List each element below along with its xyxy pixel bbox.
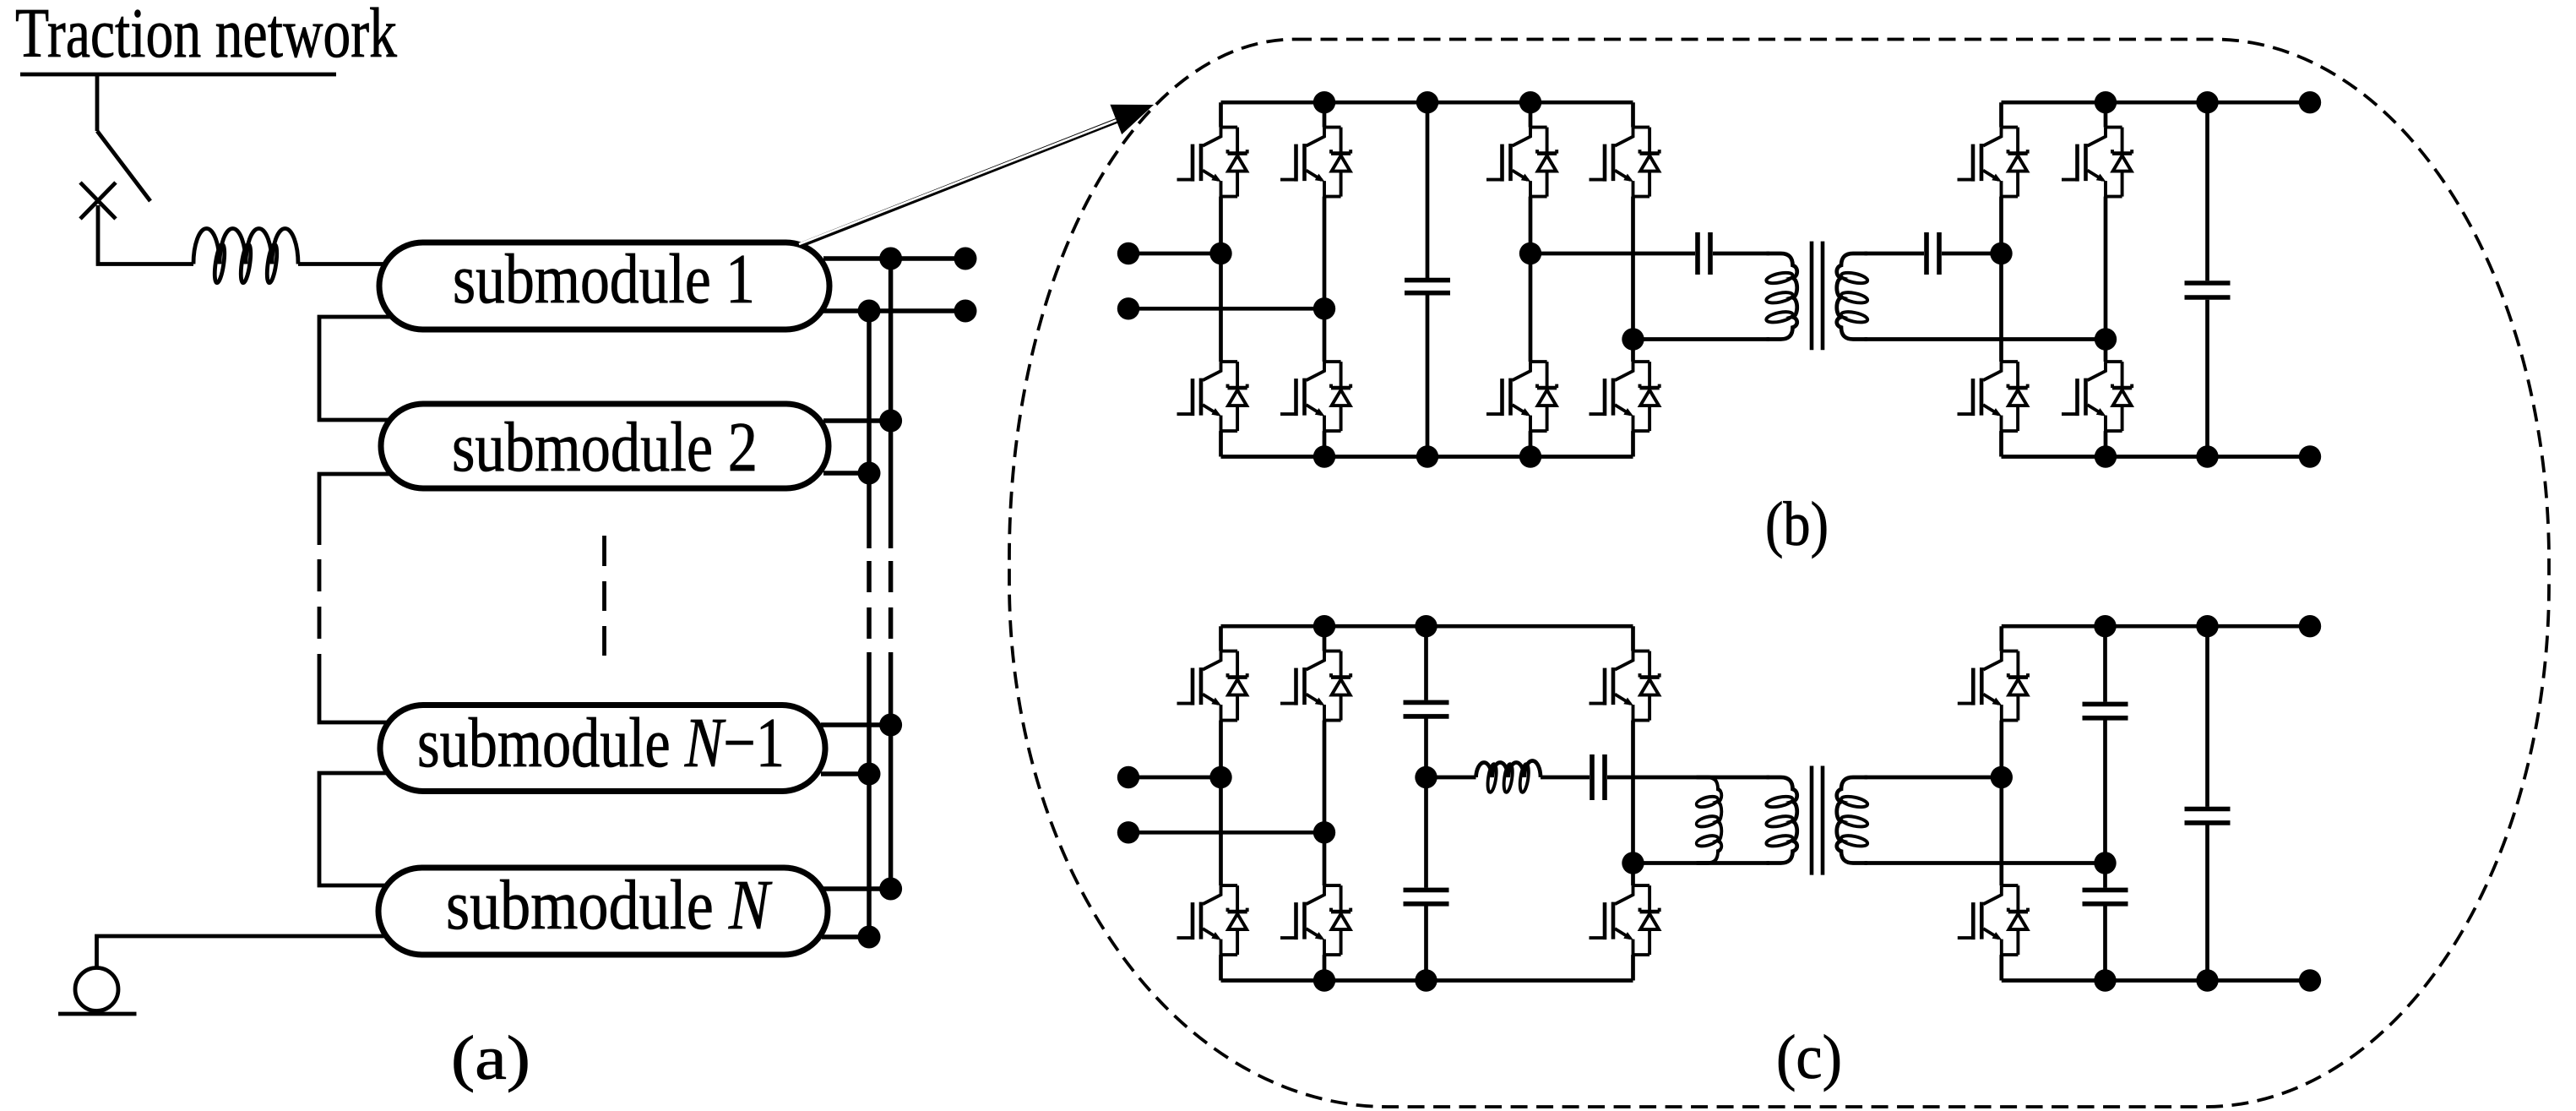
transistor Q4 [1280,362,1350,431]
(c) wire split mid to inductor [1427,776,1476,780]
(b) wire secondary bottom to output bridge [1865,337,2106,341]
transistor Q11 [1958,362,2028,431]
(c) bridge1 leg2 [1323,626,1327,980]
(c) wire secondary top to half-bridge [1865,776,2002,780]
node (b) bottom rail leg2 [1313,445,1335,467]
rail wheel ground circle [75,968,118,1011]
wire submodule N to rail ground [97,936,389,967]
capacitor Cdc (b) [1426,102,1430,456]
svg-text:submodule 2: submodule 2 [452,408,758,487]
wire trunk to submodule N-1 [319,654,389,722]
inductor L input smoothing coil [193,229,298,264]
node (c) top rail leg2 [1313,615,1335,637]
submodule 2 output wires [823,421,891,473]
submodule 1 box [379,242,829,329]
junction dot v1 submodule 1 [858,300,881,323]
transistor Q1 [1177,128,1247,197]
bus line v2 dashed part [889,561,894,639]
terminal dot (c) output - [2299,969,2321,991]
bus line v1 lower part [867,652,872,937]
(c) half-bridge mid dot [1622,852,1644,874]
wire split mid [1424,719,1428,888]
node (b) bottom rail Cdc [1416,445,1438,467]
(b) bridge1 leg2 [1323,102,1327,456]
node (b) bridge1 leg2 midpoint [1313,297,1335,319]
transistor Q5 [1486,128,1557,197]
submodule N-1 output wires [821,725,891,774]
svg-text:Traction network: Traction network [15,0,397,73]
(b) bottom rail left [1221,455,1633,459]
svg-text:submodule 1: submodule 1 [453,240,755,319]
node (c) top rail split-cap [1415,615,1437,637]
node (c) bottom rail split-cap [1415,969,1437,991]
(b) output top rail [2002,101,2311,105]
bus line v1 [867,311,872,548]
junction dot v2 submodule 1 [879,248,902,270]
terminal dot (b) input + [1117,242,1139,264]
wire submodule 2 to trunk (solid top part) [319,474,393,545]
rail ground bar [58,1012,137,1016]
node (b) top rail bridge2 [1519,91,1541,113]
terminal dot (c) input + [1117,766,1139,788]
(c) input stub top [1128,776,1221,780]
junction dot v1 submodule N-1 [858,763,881,786]
(b) bridge3 leg1 [1999,102,2003,456]
capacitor Cd2 (c) split bottom [1404,890,1449,903]
(b) input stub top [1128,252,1221,256]
transformer T1 secondary [1837,253,1869,340]
arrow submodule 1 to detail view (double shaft) [801,110,1144,245]
submodule N-1 box [380,705,825,792]
junction dot v2 submodule N [879,878,902,901]
transistor Q10 [2062,128,2132,197]
transistor Q2 [1280,128,1350,197]
svg-text:(c): (c) [1776,1023,1842,1092]
node (b) bottom rail bridge2 [1519,445,1541,467]
traction bus bar [20,73,336,77]
node (b) top rail leg2 [1313,91,1335,113]
wire cap to transformer crossing leg [1607,776,1769,780]
(c) wire half-bridge to transformer bottom [1633,861,1770,865]
svg-text:(a): (a) [451,1024,530,1093]
transistor Q9 [1958,128,2028,197]
(b) wire bridge2 to series cap [1530,252,1695,256]
node (c) bridge1 leg2 midpoint [1313,821,1335,843]
capacitor Cd1 (c) split top [1424,626,1428,700]
wire submodule 1 to submodule 2 [319,317,393,420]
transistor Q12 [2062,362,2132,431]
inductor Lr (c) [1476,761,1541,777]
dashed enclosure border [1009,40,2549,1108]
transistor Q14 [1280,651,1350,721]
(c) bottom rail left [1221,978,1633,983]
transformer T1 primary [1765,253,1797,340]
transistor Q15 [1177,885,1247,955]
(b) wire cap to transformer [1713,252,1769,256]
terminal dot submodule 1 bottom [954,300,977,323]
node (b) top rail Cdc [1416,91,1438,113]
submodule N output wires [822,889,891,937]
(c) output top rail [2002,624,2310,629]
junction dot v1 submodule N [858,926,881,949]
(c) output bottom rail [2002,978,2310,983]
(c) split mid dot right [2094,852,2116,874]
(c) bridge1 leg1 [1219,626,1223,980]
(c) split mid dot [1415,766,1437,788]
terminal dot (c) output + [2299,615,2321,637]
terminal dot (b) output + [2299,91,2321,113]
svg-text:submodule N: submodule N [446,866,772,945]
node (c) bridge1 leg1 midpoint [1209,766,1231,788]
(c) output half-bridge leg [1999,626,2003,980]
node (c) output top rail Co [2196,615,2218,637]
terminal dot (b) output - [2299,445,2321,467]
capacitor Cd4 (c) split bottom right [2083,890,2128,903]
bus line v2 [889,259,894,548]
wire from bus down [95,76,100,131]
transistor Q18 [1590,885,1660,955]
node (b) output bottom rail Co [2196,445,2218,467]
transistor Q13 [1177,651,1247,721]
transistor Q3 [1177,362,1247,431]
node (b) output bottom rail leg2 [2095,445,2117,467]
terminal dot (b) input - [1117,297,1139,319]
(b) input stub bottom [1128,307,1324,311]
(c) wire secondary bottom to split mid [1865,861,2106,865]
wire inductor to submodule 1 [298,262,389,266]
transistor Q6 [1590,128,1660,197]
capacitor Cr (c) [1592,754,1605,800]
capacitor Cd3 (c) split top right [2103,626,2107,702]
transistor Q20 [1958,885,2028,955]
transistor Q7 [1486,362,1557,431]
transistor Q19 [1958,651,2028,721]
(b) wire secondary to cap [1865,252,1925,256]
node (c) output bottom rail split-cap [2094,969,2116,991]
switch blade (open disconnector) [97,131,150,201]
transformer T1 core [1812,242,1823,351]
(b) bridge2 leg2 [1631,102,1635,456]
svg-text:submodule N−1: submodule N−1 [417,704,785,782]
switch X contact mark [80,182,116,219]
capacitor Cs2 (b) [1927,232,1939,275]
(b) wire bridge2 to transformer bottom [1633,337,1770,341]
transformer T2 core [1812,766,1823,875]
submodule 1 output wires [823,259,965,311]
node (b) bridge3 leg1 midpoint [1990,242,2012,264]
terminal dot (c) input - [1117,821,1139,843]
svg-text:(b): (b) [1765,490,1829,559]
bus line v1 dashed part [867,561,872,639]
junction dot v2 submodule N-1 [879,714,902,737]
transformer T2 primary [1765,777,1797,863]
wire inductor to cap [1541,776,1590,780]
transistor Q16 [1280,885,1350,955]
submodule 2 box [381,404,829,488]
node (c) output bottom rail Co [2196,969,2218,991]
(b) bridge1 leg1 [1219,102,1223,456]
junction dot v1 submodule 2 [858,462,881,485]
terminal dot submodule 1 top [954,248,977,270]
submodule N box [378,868,828,955]
(b) bridge3 leg2 [2104,102,2108,456]
node (b) bridge3 leg2 midpoint [2095,328,2117,350]
transistor Q8 [1590,362,1660,431]
(b) wire cap to output bridge [1942,252,2002,256]
(b) bridge2 leg1 [1529,102,1533,456]
node (c) output top rail split-cap [2094,615,2116,637]
middle ellipsis dashed line [602,536,606,656]
bus line v2 lower part [889,652,894,889]
arrow head [1110,105,1154,134]
(c) output half-bridge mid dot [1991,766,2013,788]
node (b) output top rail Co [2196,91,2218,113]
capacitor Co (c) [2205,626,2209,980]
node (b) output top rail leg2 [2095,91,2117,113]
(c) top rail left [1221,624,1633,629]
wire split mid right [2103,720,2107,887]
transistor Q17 [1590,651,1660,721]
trunk dashed segments [318,559,322,639]
capacitor Cs1 (b) [1698,232,1710,275]
transformer T2 secondary [1837,777,1869,863]
(b) output bottom rail [2002,455,2311,459]
node (b) bridge2 leg1 midpoint [1519,242,1541,264]
(b) top rail left [1221,101,1633,105]
inductor Lm (c) magnetizing [1696,777,1722,863]
node (b) bridge1 leg1 midpoint [1209,242,1231,264]
capacitor Co (b) [2205,102,2209,456]
wire submodule N-1 to submodule N [319,773,393,885]
node (b) bridge2 leg2 midpoint [1622,328,1644,350]
(c) half-bridge leg [1631,626,1635,980]
node (c) bottom rail leg2 [1313,969,1335,991]
junction dot v2 submodule 2 [879,410,902,433]
wire from X down and right to inductor [98,205,193,264]
(c) input stub bottom [1128,831,1324,835]
